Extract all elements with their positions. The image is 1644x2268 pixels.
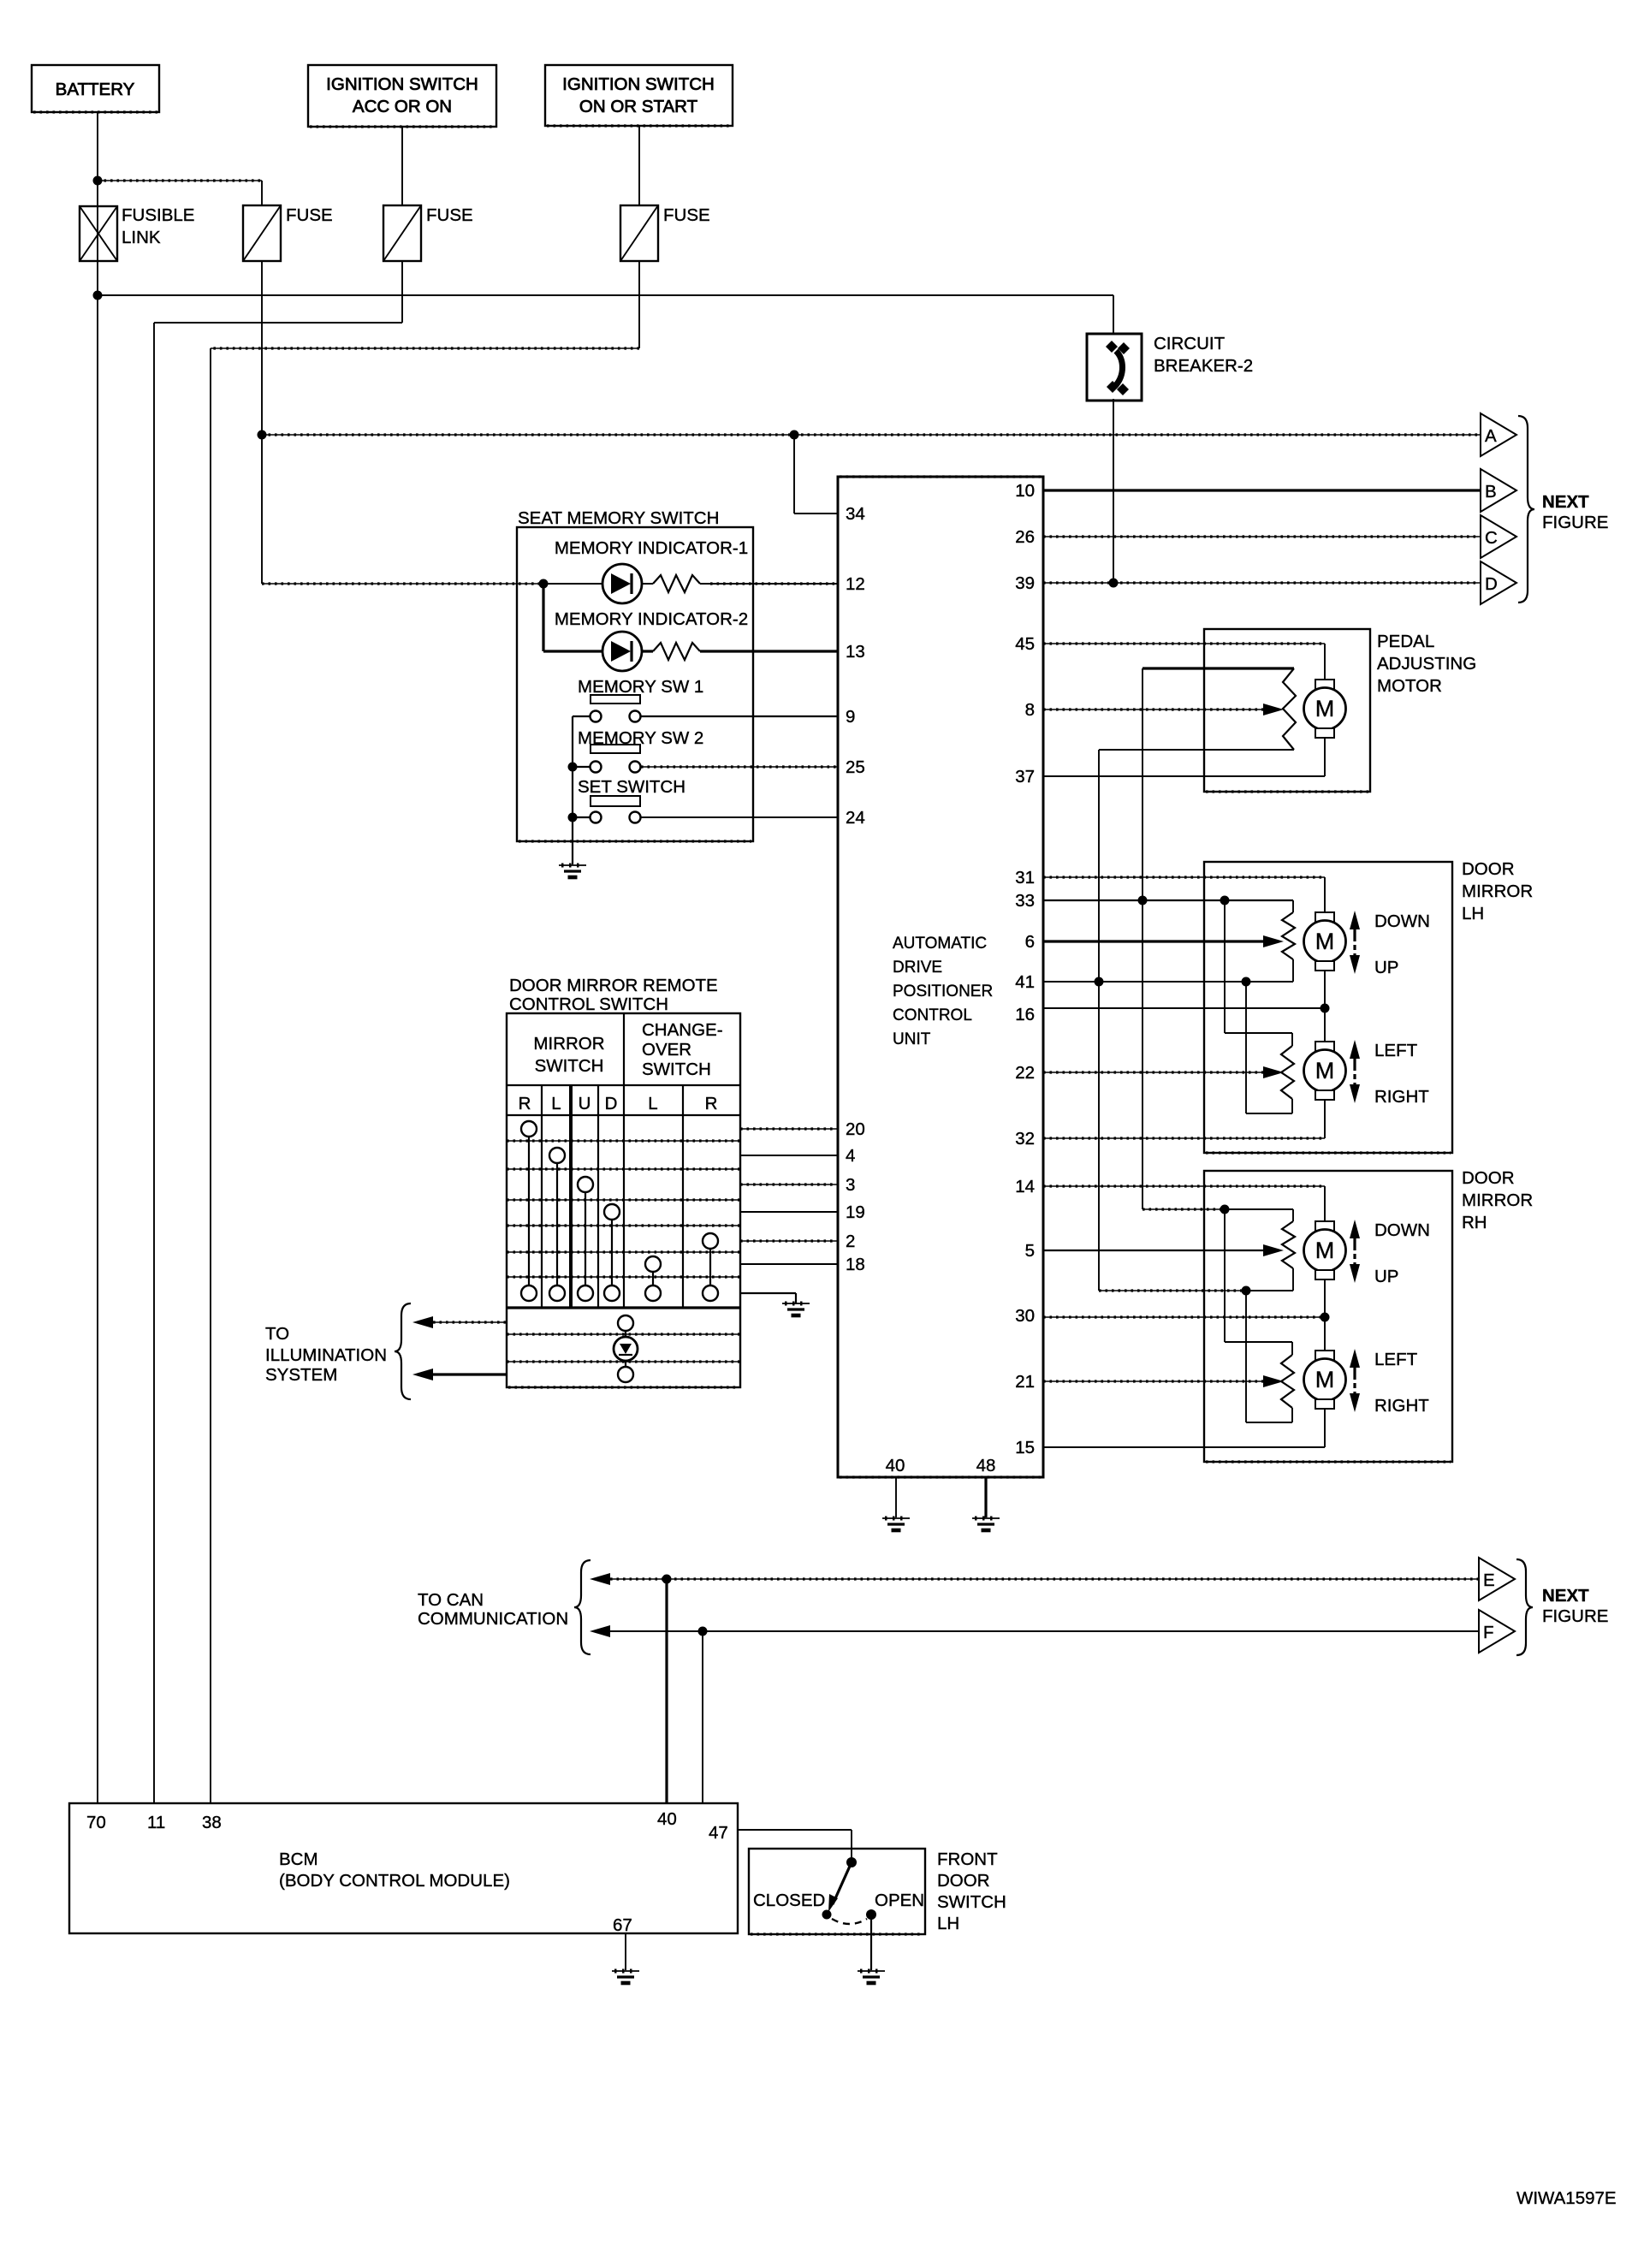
front door switch LH box — [749, 1849, 925, 1934]
wire pin 8 wiper — [1043, 709, 1264, 710]
svg-text:RIGHT: RIGHT — [1374, 1087, 1429, 1107]
svg-text:IGNITION SWITCH: IGNITION SWITCH — [326, 74, 478, 94]
svg-text:2: 2 — [846, 1232, 855, 1251]
fusible link FL — [80, 206, 117, 261]
svg-text:11: 11 — [147, 1813, 165, 1832]
node junction pin33/feed2 — [1220, 896, 1230, 905]
svg-text:3: 3 — [846, 1175, 855, 1195]
svg-text:37: 37 — [1015, 767, 1035, 787]
svg-text:67: 67 — [613, 1915, 632, 1935]
svg-text:F: F — [1483, 1623, 1494, 1642]
svg-text:BCM: BCM — [279, 1849, 318, 1869]
switch contact column L — [549, 1148, 565, 1163]
svg-text:MIRROR: MIRROR — [533, 1034, 604, 1054]
node battery junction y211 — [93, 176, 103, 186]
svg-text:OVER: OVER — [642, 1040, 691, 1060]
svg-text:OPEN: OPEN — [875, 1891, 924, 1910]
wire pin 10 to arrow B — [1043, 489, 1481, 491]
wire pin 24 — [641, 816, 838, 818]
wire pin 2 — [740, 1240, 838, 1242]
svg-text:LH: LH — [937, 1914, 959, 1933]
wire RH motors midpoint to pin 30 — [1324, 1279, 1326, 1351]
wire pin 13 feed — [542, 584, 544, 651]
svg-text:NEXT: NEXT — [1542, 492, 1589, 512]
svg-text:TO: TO — [265, 1324, 289, 1344]
node junction pin33/x1335 — [1138, 896, 1148, 905]
svg-text:MEMORY SW 1: MEMORY SW 1 — [578, 677, 703, 697]
wire CAN line F — [610, 1630, 1479, 1632]
brace to CAN — [574, 1560, 591, 1654]
connector arrow D — [1481, 561, 1516, 604]
switch front door lever — [833, 1862, 852, 1904]
node junction SW2 common — [568, 763, 578, 772]
door mirror LH box — [1204, 862, 1452, 1153]
svg-text:DOWN: DOWN — [1374, 911, 1430, 931]
connector arrow C — [1481, 515, 1516, 558]
svg-text:45: 45 — [1015, 634, 1035, 654]
wire resistor bottom — [1099, 749, 1294, 751]
wire RH motor2 to pin 15 — [1324, 1409, 1326, 1447]
ground seat memory switch — [559, 864, 586, 866]
wire switch common to ground — [572, 716, 573, 864]
svg-text:14: 14 — [1015, 1177, 1035, 1196]
switch set switch — [591, 796, 640, 806]
svg-text:FUSIBLE: FUSIBLE — [122, 205, 194, 225]
resistor RH up/down sensor — [1292, 1209, 1294, 1221]
node junction pin16/motors — [1321, 1004, 1330, 1013]
BCM body control module box — [69, 1803, 738, 1933]
svg-text:RIGHT: RIGHT — [1374, 1396, 1429, 1416]
svg-text:70: 70 — [86, 1813, 106, 1832]
svg-text:25: 25 — [846, 757, 865, 777]
svg-text:TO CAN: TO CAN — [418, 1590, 484, 1610]
node junction pin41/x1456 — [1242, 977, 1251, 987]
svg-text:L: L — [551, 1094, 561, 1113]
node junction pin30/motors — [1321, 1313, 1330, 1322]
svg-text:33: 33 — [1015, 891, 1035, 911]
node junction CAN-E / BCM 40 — [662, 1575, 672, 1584]
svg-text:E: E — [1483, 1570, 1495, 1590]
switch front door open contact — [866, 1909, 876, 1920]
wire circuit breaker to pin 39 line — [1113, 399, 1114, 583]
motor RH mirror left/right — [1315, 1351, 1334, 1360]
wire pin 31 to LH up/down motor — [1043, 876, 1325, 878]
svg-text:M: M — [1315, 1238, 1335, 1263]
switch contact column L chg — [645, 1256, 661, 1272]
svg-text:M: M — [1315, 1367, 1335, 1392]
svg-text:UP: UP — [1374, 1267, 1398, 1286]
wire RH left/right sensor feed — [1224, 1209, 1226, 1342]
resistor LH left/right sensor — [1291, 1033, 1293, 1046]
svg-text:9: 9 — [846, 707, 855, 727]
svg-text:40: 40 — [657, 1809, 677, 1829]
grid remote switch — [507, 1084, 740, 1086]
svg-text:RH: RH — [1462, 1213, 1487, 1232]
wire pin 6 wiper LH up/down — [1043, 940, 1264, 942]
svg-text:WIWA1597E: WIWA1597E — [1516, 2188, 1617, 2208]
motor RH mirror up/down — [1315, 1221, 1334, 1231]
fuse F2 (battery) — [243, 205, 281, 261]
wire LH left/right sensor feed — [1224, 900, 1226, 1033]
svg-text:DOWN: DOWN — [1374, 1220, 1430, 1240]
wire pin 4 — [740, 1155, 838, 1156]
svg-text:C: C — [1485, 528, 1498, 548]
svg-text:MEMORY INDICATOR-1: MEMORY INDICATOR-1 — [555, 538, 748, 558]
wire pin 45 to pedal motor — [1043, 643, 1325, 644]
wire sensor-return vertical x1284 (pin41 net) — [1098, 750, 1100, 1291]
svg-text:LH: LH — [1462, 904, 1484, 923]
svg-text:BATTERY: BATTERY — [56, 80, 135, 99]
switch contact column R — [521, 1121, 537, 1137]
svg-text:R: R — [705, 1094, 718, 1113]
svg-text:4: 4 — [846, 1146, 855, 1166]
node junction pin41/x1284 — [1095, 977, 1104, 987]
svg-text:LEFT: LEFT — [1374, 1350, 1418, 1369]
ground control unit pin 48 — [972, 1517, 1000, 1519]
wire LH left/right sensor return — [1246, 1113, 1292, 1114]
wire pin 20 — [740, 1128, 838, 1130]
svg-text:41: 41 — [1015, 972, 1035, 992]
wire pin 33 sensor supply — [1043, 899, 1293, 901]
svg-text:24: 24 — [846, 808, 865, 828]
battery B+ box — [32, 65, 159, 112]
svg-text:8: 8 — [1025, 700, 1035, 720]
svg-text:SEAT MEMORY SWITCH: SEAT MEMORY SWITCH — [518, 508, 719, 528]
node junction pin39/breaker — [1109, 579, 1119, 588]
node battery junction y345 bus — [93, 291, 103, 300]
svg-text:UP: UP — [1374, 958, 1398, 977]
motor LH mirror up/down — [1315, 912, 1334, 922]
svg-text:SET SWITCH: SET SWITCH — [578, 777, 685, 797]
svg-text:UNIT: UNIT — [893, 1030, 931, 1048]
svg-text:30: 30 — [1015, 1306, 1035, 1326]
svg-text:POSITIONER: POSITIONER — [893, 983, 993, 1000]
svg-text:10: 10 — [1015, 481, 1035, 501]
wire LH motor2 to pin 32 — [1324, 1100, 1326, 1138]
svg-text:SWITCH: SWITCH — [535, 1056, 604, 1076]
svg-text:18: 18 — [846, 1255, 865, 1274]
svg-text:15: 15 — [1015, 1438, 1035, 1458]
connector arrow E — [1479, 1558, 1515, 1600]
svg-text:CLOSED: CLOSED — [753, 1891, 825, 1910]
wire fuse F3 to BCM pin 11 — [401, 261, 403, 323]
wire pedal motor to pin 37 — [1324, 738, 1326, 776]
svg-text:39: 39 — [1015, 573, 1035, 593]
label arrows down/up RH — [1350, 1220, 1360, 1238]
wire pin 41 sensor return — [1043, 981, 1293, 983]
wire pin 39 to arrow D — [1043, 582, 1481, 584]
svg-text:M: M — [1315, 929, 1335, 954]
svg-text:AUTOMATIC: AUTOMATIC — [893, 935, 987, 953]
svg-text:M: M — [1315, 696, 1335, 721]
svg-text:R: R — [519, 1094, 531, 1113]
brace to illumination — [395, 1303, 411, 1399]
svg-text:BREAKER-2: BREAKER-2 — [1154, 356, 1253, 376]
wire fuse F4 to BCM pin 38 — [638, 261, 640, 348]
svg-text:48: 48 — [976, 1456, 996, 1475]
connector arrow F — [1479, 1610, 1515, 1653]
wire pin 9 — [641, 715, 838, 717]
wire CAN-F to BCM pin 47 — [702, 1631, 703, 1803]
svg-text:ON OR START: ON OR START — [579, 97, 698, 116]
LED memory indicator-2 — [602, 632, 642, 671]
seat memory switch box — [517, 527, 753, 841]
svg-text:16: 16 — [1015, 1005, 1035, 1024]
node junction line A / pin34 drop — [790, 430, 799, 440]
wire pin 26 to arrow C — [1043, 536, 1481, 537]
motor LH mirror left/right — [1315, 1042, 1334, 1051]
svg-text:L: L — [648, 1094, 657, 1113]
svg-text:PEDAL: PEDAL — [1377, 632, 1434, 651]
svg-text:22: 22 — [1015, 1063, 1035, 1083]
wire to illumination (lower) — [433, 1373, 507, 1375]
svg-text:47: 47 — [709, 1823, 728, 1843]
connector arrow B — [1481, 469, 1516, 512]
svg-text:M: M — [1315, 1058, 1335, 1084]
motor pedal adjusting M1 — [1315, 680, 1334, 689]
wire fuse F2 down — [261, 261, 263, 584]
svg-text:IGNITION SWITCH: IGNITION SWITCH — [562, 74, 715, 94]
svg-text:LEFT: LEFT — [1374, 1041, 1418, 1060]
wire CAN-E to BCM pin 40 — [665, 1579, 668, 1803]
wire RH left/right sensor return — [1246, 1422, 1292, 1423]
svg-text:DRIVE: DRIVE — [893, 959, 942, 977]
svg-text:COMMUNICATION: COMMUNICATION — [418, 1609, 568, 1629]
wire ignition ON to fuse F4 — [638, 126, 640, 205]
node junction fuse F2 / line A — [258, 430, 267, 440]
svg-text:DOOR: DOOR — [1462, 859, 1515, 879]
resistor R-ind1 — [653, 575, 700, 592]
svg-text:CONTROL: CONTROL — [893, 1006, 972, 1024]
svg-text:FUSE: FUSE — [663, 205, 710, 225]
wire pin 22 wiper LH left/right — [1043, 1072, 1264, 1073]
door mirror RH box — [1204, 1171, 1452, 1462]
svg-text:FIGURE: FIGURE — [1542, 1606, 1608, 1626]
svg-text:MIRROR: MIRROR — [1462, 1190, 1533, 1210]
node junction CAN-F / BCM 47 — [698, 1627, 708, 1636]
illumination lamp section — [507, 1333, 740, 1335]
door mirror remote control switch box — [507, 1013, 740, 1387]
wire CAN line E — [610, 1578, 1479, 1580]
svg-text:B: B — [1485, 482, 1497, 502]
switch memory SW1 — [591, 695, 640, 704]
wire battery to fuse F2 — [98, 180, 262, 181]
switch contact column U — [578, 1177, 593, 1192]
svg-text:(BODY CONTROL MODULE): (BODY CONTROL MODULE) — [279, 1871, 510, 1891]
fuse F4 (ON/START) — [620, 205, 658, 261]
node junction indicator feed — [539, 579, 549, 589]
brace next figure A-D — [1518, 416, 1534, 603]
node junction set-switch common — [568, 813, 578, 822]
resistor RH left/right sensor — [1291, 1342, 1293, 1355]
pedal adjusting motor box — [1204, 629, 1370, 792]
wire BCM pin 67 ground stub — [625, 1933, 626, 1970]
svg-text:20: 20 — [846, 1119, 865, 1139]
svg-text:CIRCUIT: CIRCUIT — [1154, 334, 1226, 353]
wire ignition ACC to fuse F3 — [401, 127, 403, 205]
svg-text:MOTOR: MOTOR — [1377, 676, 1442, 696]
wire LH motors midpoint to pin 16 — [1324, 971, 1326, 1042]
wire RH sensor supply from x1335 — [1142, 1208, 1225, 1210]
wire battery vertical feed to BCM pin 70 — [97, 112, 98, 1803]
wire switch common to ground — [740, 1292, 796, 1294]
svg-text:DOOR: DOOR — [937, 1871, 990, 1891]
resistor pedal position sensor — [1283, 668, 1296, 750]
svg-text:CHANGE-: CHANGE- — [642, 1020, 723, 1040]
svg-text:21: 21 — [1015, 1372, 1035, 1392]
svg-text:FUSE: FUSE — [426, 205, 473, 225]
svg-text:13: 13 — [846, 642, 865, 662]
node junction RH return/x1456 — [1242, 1286, 1251, 1296]
svg-text:FUSE: FUSE — [286, 205, 333, 225]
switch memory SW2 — [591, 745, 640, 753]
svg-text:D: D — [1485, 574, 1498, 594]
svg-text:MEMORY INDICATOR-2: MEMORY INDICATOR-2 — [555, 609, 748, 629]
svg-text:34: 34 — [846, 504, 865, 524]
svg-text:NEXT: NEXT — [1542, 1586, 1589, 1606]
switch front door throw arc — [832, 1919, 867, 1924]
svg-text:A: A — [1485, 426, 1497, 446]
svg-text:26: 26 — [1015, 527, 1035, 547]
svg-text:ACC OR ON: ACC OR ON — [353, 97, 452, 116]
svg-text:LINK: LINK — [122, 228, 161, 247]
wire sensor-supply vertical x1335 (pin33 net) — [1142, 668, 1143, 1209]
wire pin 14 to RH up/down motor — [1043, 1185, 1325, 1187]
label arrows left/right RH — [1350, 1349, 1360, 1368]
svg-text:MIRROR: MIRROR — [1462, 882, 1533, 901]
svg-text:ADJUSTING: ADJUSTING — [1377, 654, 1476, 674]
wire pin 18 — [740, 1263, 838, 1265]
wire pin 19 — [740, 1211, 838, 1213]
wire pin 3 — [740, 1184, 838, 1185]
svg-text:DOOR: DOOR — [1462, 1168, 1515, 1188]
svg-text:U: U — [579, 1094, 591, 1113]
svg-text:DOOR MIRROR REMOTE: DOOR MIRROR REMOTE — [509, 976, 718, 995]
svg-text:40: 40 — [886, 1456, 905, 1475]
svg-text:SYSTEM: SYSTEM — [265, 1365, 337, 1385]
connector arrow A — [1481, 413, 1516, 456]
wire pin 21 wiper RH left/right — [1043, 1380, 1264, 1382]
svg-text:SWITCH: SWITCH — [642, 1060, 711, 1079]
wire RH sensor return to x1284 — [1099, 1290, 1246, 1291]
wire resistor top feed — [1142, 667, 1294, 669]
svg-text:D: D — [605, 1094, 618, 1113]
circuit breaker CB-2 — [1087, 334, 1142, 401]
svg-text:32: 32 — [1015, 1129, 1035, 1149]
svg-text:19: 19 — [846, 1202, 865, 1222]
wire pin 5 wiper RH up/down — [1043, 1250, 1264, 1251]
wire to illumination (upper) — [433, 1321, 507, 1323]
wire pin 40 ground stub — [895, 1477, 897, 1517]
wire pin 48 ground stub — [984, 1477, 987, 1517]
svg-text:6: 6 — [1025, 932, 1035, 952]
wire pin 25 — [641, 766, 838, 768]
svg-text:31: 31 — [1015, 868, 1035, 888]
svg-text:FRONT: FRONT — [937, 1849, 998, 1869]
wire main bus y345 to circuit breaker — [98, 294, 1113, 296]
wire BCM pin 47 to door switch — [738, 1829, 852, 1831]
switch front door common — [846, 1857, 857, 1867]
ground control unit pin 40 — [882, 1517, 910, 1519]
ignition switch ACC-or-ON box — [308, 65, 496, 127]
wire line A to next-figure arrow A — [262, 434, 1481, 436]
brace next figure E-F — [1516, 1559, 1533, 1655]
label arrows left/right LH — [1350, 1040, 1360, 1059]
switch contact column D — [604, 1204, 620, 1220]
label arrows down/up LH — [1350, 911, 1360, 929]
LED memory indicator-1 — [602, 564, 642, 603]
svg-text:SWITCH: SWITCH — [937, 1892, 1006, 1912]
fuse F3 (ACC) — [383, 205, 421, 261]
ground front door switch — [858, 1970, 885, 1972]
automatic drive positioner control unit U1 — [838, 477, 1043, 1477]
switch contact column R chg — [703, 1233, 718, 1249]
svg-text:38: 38 — [202, 1813, 222, 1832]
svg-text:12: 12 — [846, 574, 865, 594]
wire door switch to ground — [870, 1919, 872, 1970]
resistor R-ind2 — [653, 643, 700, 660]
wire to control unit pin 34 — [793, 435, 795, 514]
ignition switch ON-or-START box — [545, 65, 733, 126]
ground remote switch — [782, 1303, 810, 1304]
wire pin 12 feed — [262, 583, 543, 585]
node junction RH feed/x1431 — [1220, 1205, 1230, 1214]
svg-text:5: 5 — [1025, 1241, 1035, 1261]
ground BCM pin 67 — [612, 1970, 639, 1972]
resistor LH up/down sensor — [1292, 900, 1294, 912]
svg-text:CONTROL SWITCH: CONTROL SWITCH — [509, 994, 668, 1014]
svg-text:ILLUMINATION: ILLUMINATION — [265, 1345, 387, 1365]
svg-text:FIGURE: FIGURE — [1542, 513, 1608, 532]
